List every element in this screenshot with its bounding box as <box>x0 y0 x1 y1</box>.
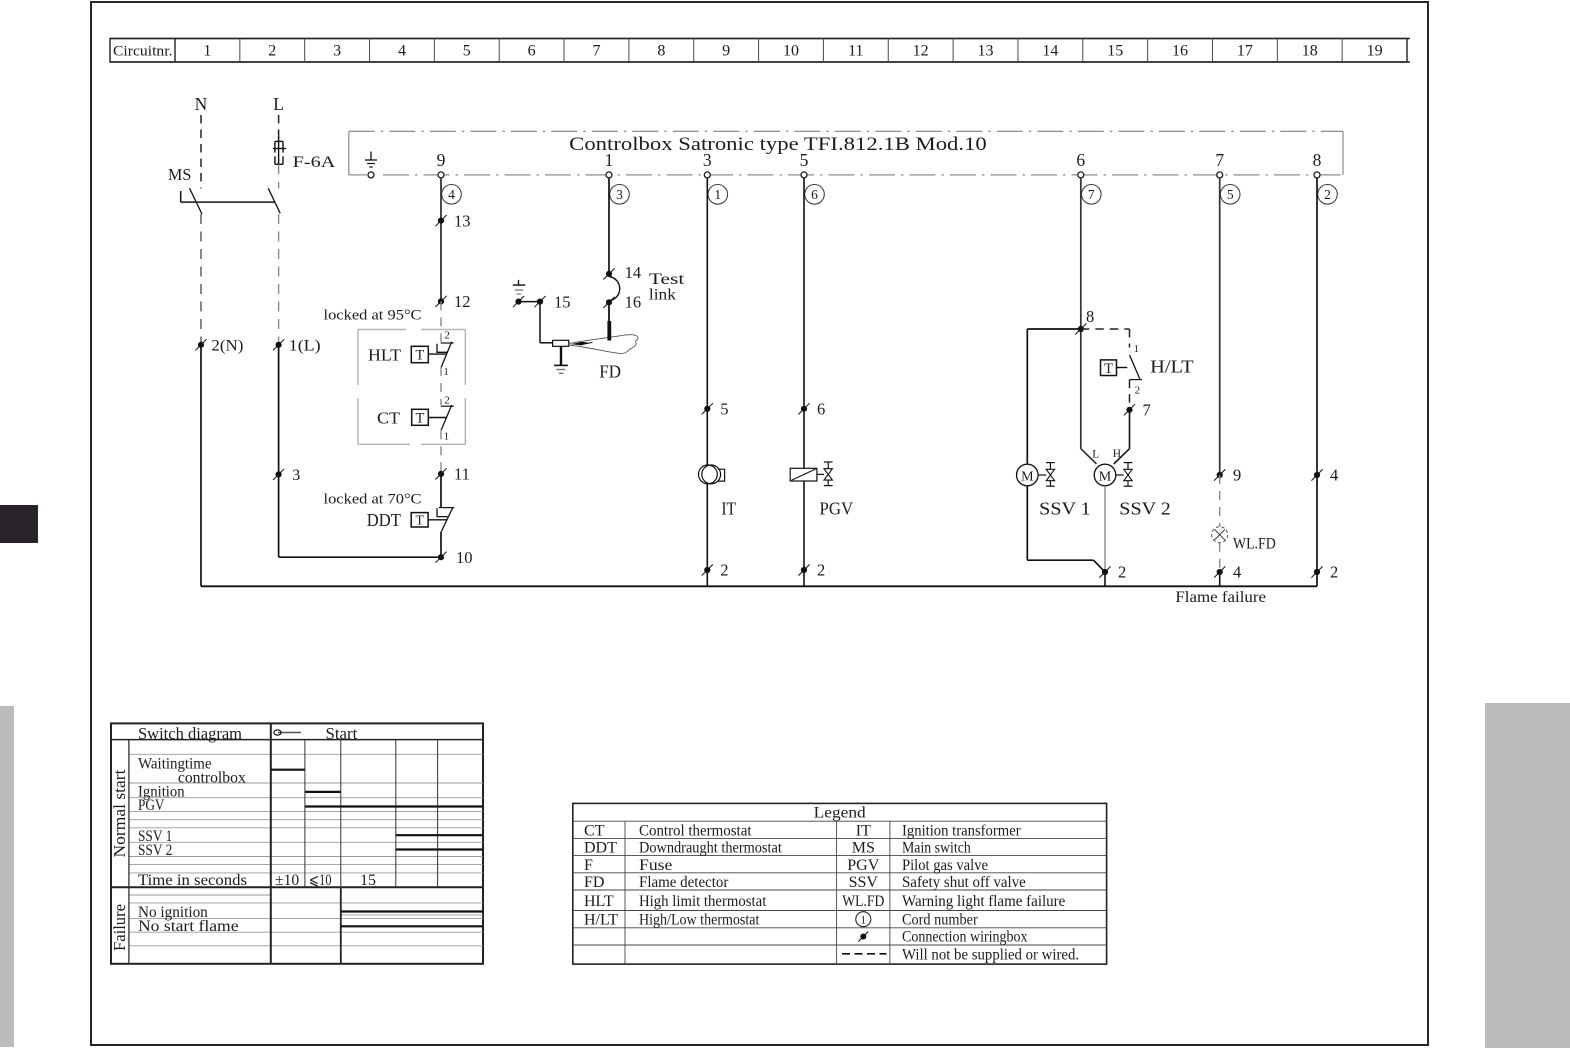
wire CT to node 11 dashed <box>440 430 442 474</box>
svg-text:9: 9 <box>722 43 730 60</box>
svg-text:PGV: PGV <box>138 797 165 814</box>
svg-text:3: 3 <box>703 150 712 170</box>
svg-text:2: 2 <box>444 394 450 406</box>
circuit number header table <box>110 39 1410 63</box>
svg-text:Cord number: Cord number <box>902 911 978 928</box>
svg-text:9: 9 <box>1233 466 1241 485</box>
svg-text:4: 4 <box>398 43 406 60</box>
node 2 on circuit 8 <box>1311 563 1338 582</box>
svg-text:19: 19 <box>1367 43 1383 60</box>
svg-text:DDT: DDT <box>367 510 401 530</box>
cord number 2 <box>1318 185 1338 205</box>
svg-text:7: 7 <box>1215 150 1224 170</box>
svg-text:3: 3 <box>292 467 300 484</box>
wire to bus <box>803 570 805 586</box>
svg-text:MS: MS <box>852 840 875 857</box>
node 16 <box>603 292 641 311</box>
svg-text:WL.FD: WL.FD <box>1233 536 1276 553</box>
svg-text:High limit thermostat: High limit thermostat <box>639 893 767 910</box>
svg-text:M: M <box>1099 469 1112 484</box>
high limit thermostat HLT <box>324 308 454 378</box>
svg-text:14: 14 <box>1042 43 1058 60</box>
svg-text:DDT: DDT <box>584 840 617 857</box>
svg-text:F-6A: F-6A <box>293 154 336 171</box>
cord number 1 <box>708 185 728 205</box>
wire node 11 to DDT <box>440 474 442 508</box>
svg-text:SSV: SSV <box>849 874 879 891</box>
wire to bus <box>1104 572 1106 586</box>
wire terminal 3 down to IT <box>706 178 708 465</box>
wire node 8 to SSV1 <box>1027 329 1081 464</box>
svg-text:2: 2 <box>817 561 825 580</box>
svg-text:L: L <box>1092 449 1099 461</box>
terminal 8 of controlbox <box>1313 150 1322 178</box>
svg-text:14: 14 <box>625 263 642 282</box>
svg-text:6: 6 <box>528 43 536 60</box>
svg-text:Ignition transformer: Ignition transformer <box>902 823 1021 840</box>
wire terminal 5 down to PGV <box>803 178 805 468</box>
cord number 4 <box>442 185 462 205</box>
svg-text:2: 2 <box>720 561 728 580</box>
svg-text:18: 18 <box>1302 43 1318 60</box>
wire lamp to node 4 dashed <box>1219 543 1221 572</box>
svg-text:WL.FD: WL.FD <box>842 893 884 910</box>
svg-text:locked at 95°C: locked at 95°C <box>324 308 422 324</box>
svg-text:Warning light flame failure: Warning light flame failure <box>902 893 1065 910</box>
svg-text:PGV: PGV <box>847 857 879 874</box>
wire PGV to node 2 <box>803 481 805 570</box>
svg-text:Time in seconds: Time in seconds <box>138 872 247 889</box>
svg-text:1: 1 <box>714 187 721 202</box>
terminal 7 of controlbox <box>1215 150 1224 178</box>
wire node 8 to H/LT dashed <box>1081 329 1130 348</box>
svg-text:1: 1 <box>444 431 450 443</box>
svg-text:IT: IT <box>856 823 871 840</box>
wire DDT to node 10 <box>440 532 442 557</box>
svg-text:13: 13 <box>454 211 471 230</box>
svg-text:2: 2 <box>268 43 276 60</box>
svg-text:Downdraught thermostat: Downdraught thermostat <box>639 840 782 857</box>
wire 2(N) to bottom bus <box>200 345 202 587</box>
node 14 <box>603 263 641 282</box>
node 6 <box>798 400 825 419</box>
svg-text:Flame detector: Flame detector <box>639 874 729 891</box>
node 1(L) <box>273 338 321 355</box>
node 2(N) <box>195 338 243 355</box>
svg-text:15: 15 <box>1107 43 1123 60</box>
svg-text:2: 2 <box>1330 563 1338 582</box>
svg-text:1: 1 <box>605 150 614 170</box>
node 10 <box>435 548 472 567</box>
svg-text:1: 1 <box>443 366 449 378</box>
wire node 15 to flame detector <box>519 302 554 343</box>
svg-text:1: 1 <box>1134 343 1140 355</box>
svg-text:5: 5 <box>720 400 728 419</box>
svg-text:16: 16 <box>625 292 642 311</box>
node 13 <box>435 211 470 230</box>
wire H/LT to node 7 dashed <box>1129 380 1131 410</box>
svg-text:2: 2 <box>1324 187 1331 202</box>
svg-text:11: 11 <box>848 43 863 60</box>
svg-text:Will not be supplied or wired.: Will not be supplied or wired. <box>902 946 1079 963</box>
controlbox boundary (Satronic TFI.812.1B) <box>349 131 1343 175</box>
safety shut off valve SSV 2 <box>1092 448 1171 519</box>
svg-text:5: 5 <box>1227 187 1234 202</box>
svg-text:6: 6 <box>1076 150 1085 170</box>
svg-text:Legend: Legend <box>814 805 866 822</box>
main switch MS <box>168 165 280 214</box>
wire N feeder dashed <box>200 115 202 189</box>
switch diagram table <box>110 723 483 963</box>
ignition transformer IT <box>699 465 737 519</box>
svg-text:11: 11 <box>454 465 470 484</box>
svg-text:SSV 2: SSV 2 <box>138 842 172 859</box>
node 4 under lamp <box>1214 563 1241 582</box>
svg-text:8: 8 <box>1086 307 1094 326</box>
node 8 <box>1075 307 1094 335</box>
svg-text:N: N <box>195 94 208 114</box>
svg-text:2: 2 <box>444 330 450 342</box>
svg-text:5: 5 <box>800 150 809 170</box>
node 2 under SSV <box>1099 563 1126 582</box>
svg-text:Controlbox Satronic type TF: Controlbox Satronic type TFI.812.1B Mod.… <box>569 134 987 155</box>
svg-text:HLT: HLT <box>584 893 614 910</box>
wire to bus <box>706 570 708 586</box>
svg-text:Switch diagram: Switch diagram <box>138 724 242 743</box>
svg-text:16: 16 <box>1172 43 1188 60</box>
svg-text:5: 5 <box>463 43 471 60</box>
svg-text:PGV: PGV <box>820 499 854 519</box>
wire L below MS dashed <box>278 214 280 345</box>
svg-text:link: link <box>649 287 676 304</box>
svg-text:H/LT: H/LT <box>584 911 618 928</box>
svg-text:F: F <box>584 857 593 874</box>
node L (mains live feeder) <box>273 94 284 114</box>
wire terminal 9 down to node 12 <box>440 178 442 302</box>
svg-text:CT: CT <box>584 823 605 840</box>
svg-text:10: 10 <box>783 43 799 60</box>
wire terminal 1 down to node 14 <box>608 178 610 274</box>
svg-text:T: T <box>415 512 424 527</box>
svg-text:2(N): 2(N) <box>211 338 243 355</box>
svg-text:8: 8 <box>1313 150 1322 170</box>
cord number 7 <box>1082 185 1102 205</box>
svg-text:2: 2 <box>1135 385 1141 397</box>
svg-text:⩽10: ⩽10 <box>309 872 332 889</box>
terminal 3 of controlbox <box>703 150 712 178</box>
fuse F-6A <box>273 137 336 171</box>
svg-text:6: 6 <box>811 187 818 202</box>
svg-text:7: 7 <box>1143 401 1151 420</box>
svg-text:H: H <box>1113 448 1121 460</box>
flame detector FD <box>553 321 638 382</box>
svg-text:H/LT: H/LT <box>1150 356 1194 376</box>
svg-text:T: T <box>1104 361 1113 377</box>
node 3 <box>273 467 300 484</box>
control thermostat CT <box>377 394 454 442</box>
svg-text:Main switch: Main switch <box>902 840 971 857</box>
wire 1(L) down to node 3 <box>278 345 280 475</box>
terminal 6 of controlbox <box>1076 150 1085 178</box>
svg-text:2: 2 <box>1118 563 1126 582</box>
svg-text:8: 8 <box>657 43 665 60</box>
wire to bus <box>1219 572 1221 586</box>
svg-text:17: 17 <box>1237 43 1253 60</box>
wire SSV2 to node 2 <box>1104 486 1106 572</box>
ground at node 15 <box>513 280 526 307</box>
svg-text:Connection wiringbox: Connection wiringbox <box>902 929 1028 946</box>
svg-text:9: 9 <box>437 150 446 170</box>
svg-text:No start flame: No start flame <box>138 918 239 935</box>
svg-text:1: 1 <box>203 43 211 60</box>
node 5 <box>702 400 729 419</box>
svg-text:Control thermostat: Control thermostat <box>639 823 752 840</box>
node 4 on circuit 8 <box>1311 466 1338 485</box>
svg-text:13: 13 <box>978 43 994 60</box>
node 9 <box>1214 466 1241 485</box>
svg-text:±10: ±10 <box>275 872 299 889</box>
node 12 <box>435 292 470 311</box>
wire terminal 7 down to node 9 <box>1219 178 1221 475</box>
svg-text:7: 7 <box>1088 187 1095 202</box>
svg-text:Pilot gas valve: Pilot gas valve <box>902 857 988 874</box>
svg-text:controlbox: controlbox <box>178 770 246 787</box>
svg-text:3: 3 <box>333 43 341 60</box>
wire SSV1 to node 2 <box>1027 486 1105 572</box>
node 11 <box>435 465 469 484</box>
terminal 1 of controlbox <box>605 150 614 178</box>
svg-text:locked at 70°C: locked at 70°C <box>324 492 422 508</box>
svg-text:15: 15 <box>360 872 376 889</box>
node 7 <box>1124 401 1151 420</box>
downdraught thermostat DDT <box>324 492 455 532</box>
svg-text:1: 1 <box>860 914 866 926</box>
node 2 under PGV <box>798 561 825 580</box>
wire terminal 8 down to bus <box>1316 178 1318 586</box>
label flame failure <box>1175 589 1266 606</box>
svg-text:12: 12 <box>454 292 471 311</box>
safety shut off valve SSV 1 <box>1017 463 1091 519</box>
svg-text:L: L <box>273 94 284 114</box>
svg-text:1(L): 1(L) <box>289 338 321 355</box>
svg-text:3: 3 <box>616 187 623 202</box>
terminal 9 of controlbox <box>437 150 446 178</box>
wire node 3 to node 10 <box>279 474 441 557</box>
svg-text:Start: Start <box>326 724 358 743</box>
svg-text:Safety shut off valve: Safety shut off valve <box>902 874 1026 891</box>
svg-text:High/Low thermostat: High/Low thermostat <box>639 911 760 928</box>
svg-text:4: 4 <box>448 187 455 202</box>
terminal 5 of controlbox <box>800 150 809 178</box>
cord number 3 <box>610 185 630 205</box>
high/low thermostat H/LT <box>1101 343 1194 397</box>
wire node 7 to SSV2 high winding <box>1114 410 1130 464</box>
svg-text:12: 12 <box>913 43 929 60</box>
svg-text:Flame failure: Flame failure <box>1175 589 1266 606</box>
svg-text:T: T <box>415 411 424 427</box>
svg-text:FD: FD <box>584 874 604 891</box>
wire terminal 6 down to SSV2 <box>1081 178 1097 464</box>
svg-text:6: 6 <box>817 400 825 419</box>
cord number 5 <box>1220 185 1240 205</box>
thermostat assembly dashed enclosure <box>358 330 465 445</box>
node 2 under IT <box>702 561 729 580</box>
svg-text:MS: MS <box>168 165 191 184</box>
wire IT to node 2 <box>706 484 708 570</box>
test link <box>609 271 685 304</box>
pilot gas valve PGV <box>790 462 853 519</box>
svg-text:Circuitnr.: Circuitnr. <box>113 44 173 60</box>
cord number 6 <box>805 185 825 205</box>
svg-text:Test: Test <box>649 271 685 288</box>
svg-text:FD: FD <box>599 362 621 382</box>
svg-text:4: 4 <box>1233 563 1241 582</box>
wire L feeder dashed <box>278 115 280 140</box>
node N (mains neutral feeder) <box>195 94 208 114</box>
wire HLT to CT dashed <box>440 367 442 405</box>
wire node 16 to flame detector electrode <box>608 302 610 322</box>
svg-text:7: 7 <box>592 43 600 60</box>
svg-text:IT: IT <box>721 499 736 519</box>
svg-text:M: M <box>1021 469 1034 484</box>
svg-text:CT: CT <box>377 409 401 428</box>
wire N below MS dashed <box>200 214 202 345</box>
wire L below fuse dashed <box>278 164 280 188</box>
svg-text:SSV 1: SSV 1 <box>1039 499 1091 519</box>
legend table <box>573 803 1107 964</box>
svg-text:10: 10 <box>456 548 473 567</box>
svg-text:15: 15 <box>554 292 571 311</box>
svg-text:HLT: HLT <box>368 346 402 365</box>
svg-text:T: T <box>415 348 424 364</box>
svg-text:Fuse: Fuse <box>639 857 672 874</box>
svg-text:SSV 2: SSV 2 <box>1119 499 1171 519</box>
wire node 9 to lamp dashed <box>1219 475 1221 527</box>
node 15 <box>534 292 570 311</box>
wire node 12 to HLT dashed <box>440 301 442 342</box>
bottom bus wire <box>201 585 1317 587</box>
svg-text:4: 4 <box>1330 466 1338 485</box>
ground terminal inside controlbox <box>365 152 377 178</box>
svg-text:Normal start: Normal start <box>110 769 129 857</box>
warning light WL.FD <box>1212 527 1276 553</box>
svg-text:Failure: Failure <box>110 904 129 951</box>
